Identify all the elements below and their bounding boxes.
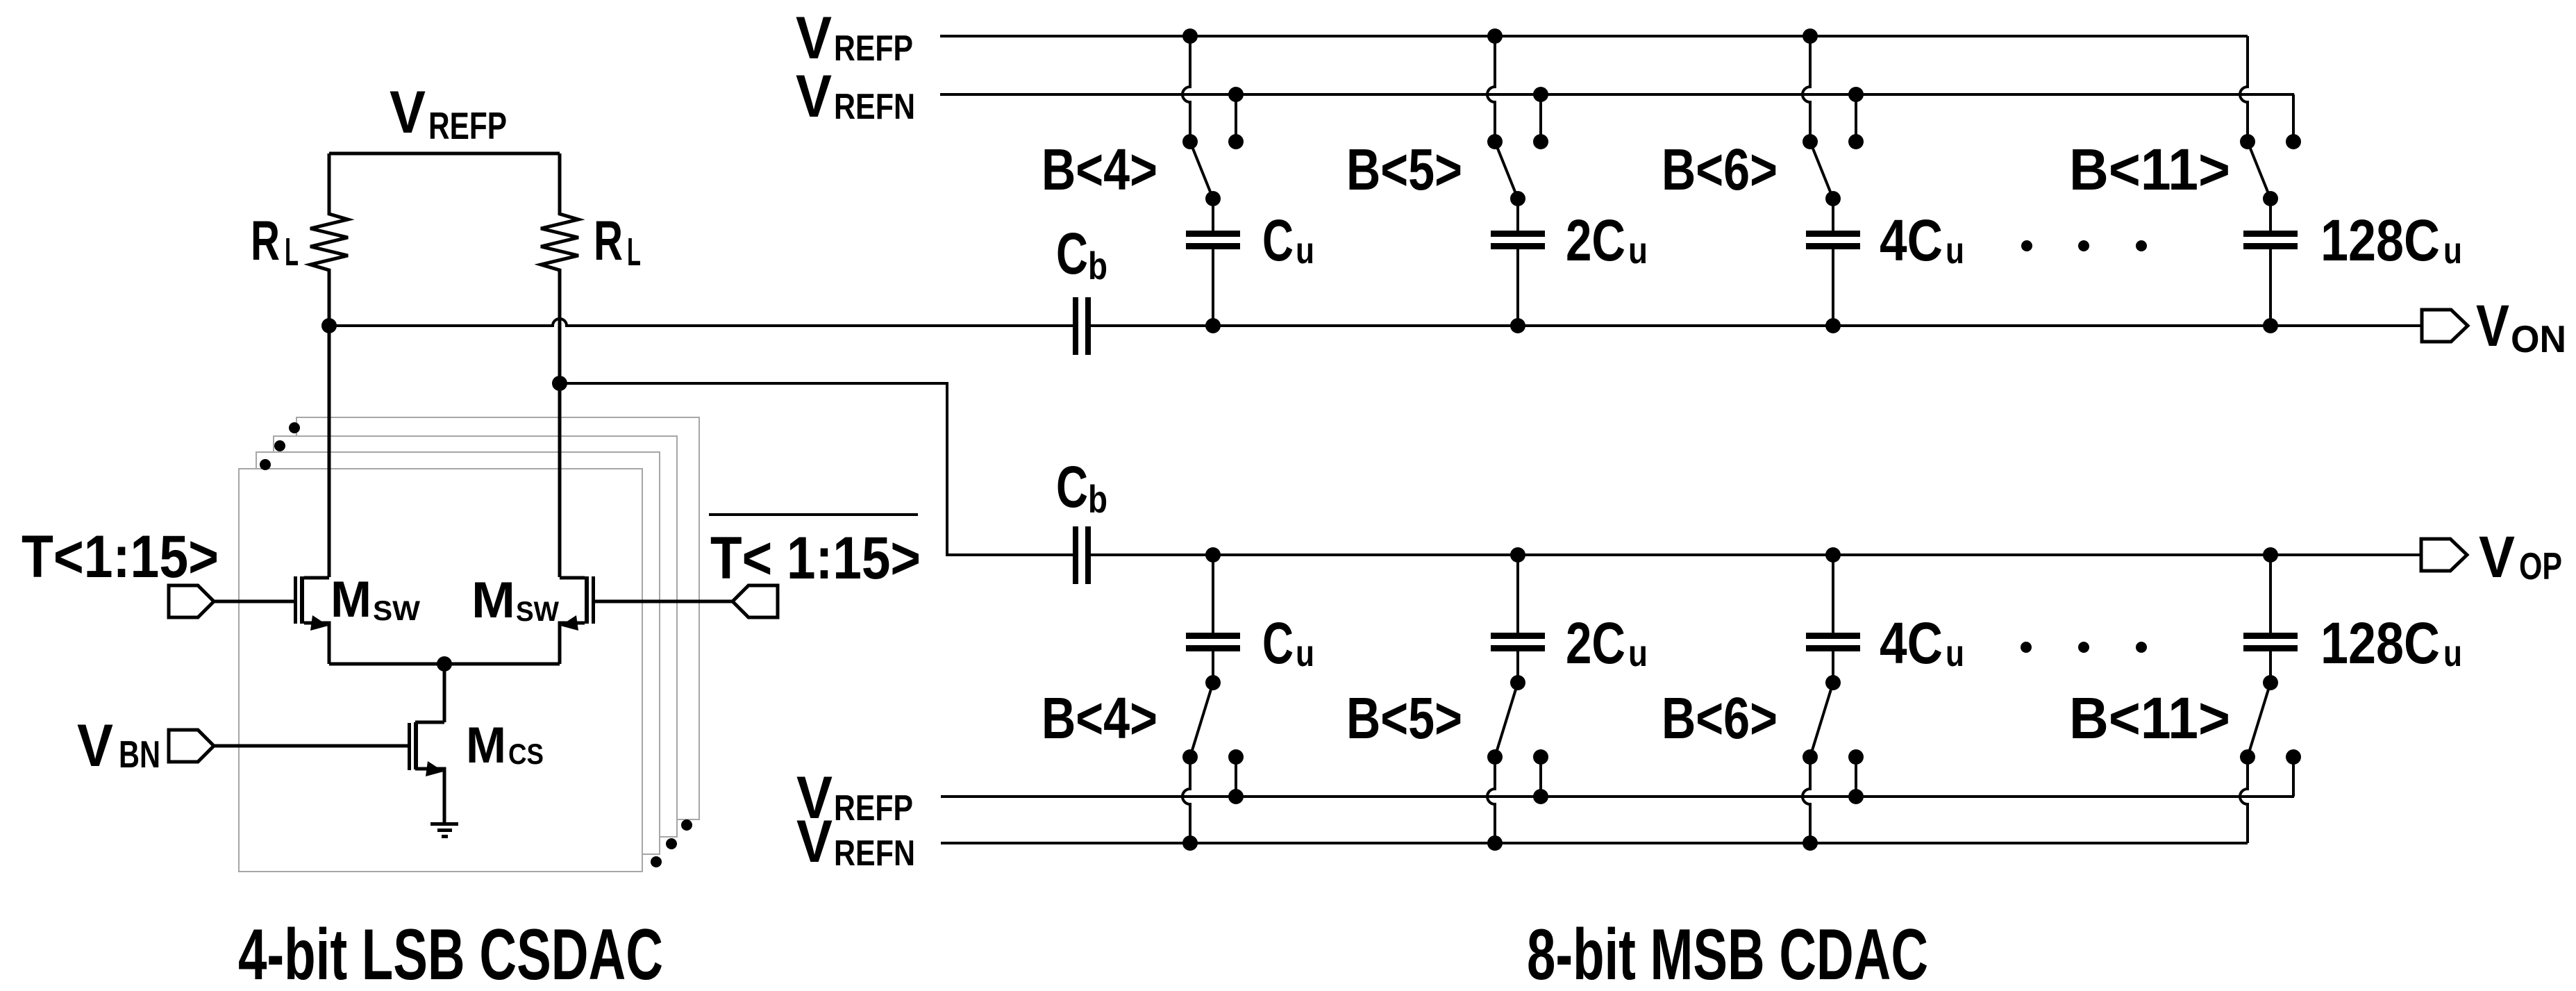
capacitor 128Cu bottom plates (2243, 633, 2298, 639)
wire VOP feed from CSDAC to Cb (560, 383, 1073, 555)
junction VREFP tap B4 top (1182, 28, 1198, 44)
switch B4 top contact VREFN (1228, 134, 1244, 149)
switch B5 top pole (1510, 191, 1525, 206)
svg-text:B<6>: B<6> (1662, 137, 1778, 202)
svg-text:T<1:15>: T<1:15> (22, 524, 219, 590)
switch B5 bottom contact VREFP (1533, 749, 1548, 765)
switch B6 bottom contact VREFN (1803, 749, 1818, 765)
switch B6 bottom pole (1825, 675, 1841, 690)
wire MSW left source (304, 623, 329, 664)
svg-text:b: b (1088, 244, 1107, 288)
svg-text:V: V (2479, 524, 2515, 590)
transistor MCS source arrow (426, 761, 444, 776)
switch B6 top contact VREFP (1803, 134, 1818, 149)
transistor MSW left gate bar (294, 576, 297, 624)
port Tbar<1:15> input (733, 585, 778, 617)
wire VREFN tap for switch B11 bottom (hop over VREFP) (2240, 757, 2248, 843)
wire switch to capacitor 4Cu top (1832, 199, 1834, 231)
transistor MSW right channel bar (585, 576, 589, 624)
svg-text:REFP: REFP (834, 28, 913, 69)
transistor MSW right gate bar (592, 576, 595, 624)
wire VREFP bottom rail (941, 795, 2294, 798)
wire VREFN tap for switch B6 bottom (hop over VREFP) (1803, 757, 1810, 843)
svg-text:B<5>: B<5> (1346, 137, 1462, 202)
switch B4 top arm (1190, 142, 1213, 199)
wire switch to capacitor 128Cu top (2269, 199, 2272, 231)
wire capacitor Cu top to VON rail (1212, 249, 1214, 326)
junction B11 top cap on VON rail (2263, 318, 2278, 333)
wire capacitor 4Cu top to VON rail (1832, 249, 1834, 326)
ground symbol (430, 822, 458, 826)
resistor RL right (541, 153, 578, 577)
switch B5 bottom pole (1510, 675, 1525, 690)
wire switch to capacitor 2Cu top (1516, 199, 1519, 231)
svg-text:B<11>: B<11> (2069, 685, 2230, 751)
capacitor 4Cu top plates (1806, 231, 1860, 237)
svg-text:SW: SW (516, 597, 559, 627)
repeated-cell box 3 (274, 436, 677, 837)
wire VREFP top rail (940, 35, 2248, 38)
wire VREFN stub for switch B5 top (1539, 94, 1542, 142)
svg-text:u: u (1946, 633, 1964, 674)
svg-text:u: u (1628, 230, 1648, 272)
wire VON rail right segment (1091, 324, 2422, 327)
svg-text:V: V (390, 79, 426, 146)
transistor MCS channel bar (414, 722, 418, 769)
switch B6 bottom arm (1810, 683, 1833, 757)
svg-text:B<5>: B<5> (1346, 685, 1462, 751)
wire VOP rail to capacitor 2Cu bottom (1516, 555, 1519, 633)
switch B4 bottom contact VREFN (1182, 749, 1198, 765)
svg-text:4C: 4C (1880, 208, 1943, 273)
svg-text:SW: SW (373, 596, 420, 626)
wire VREFN tap for switch B5 bottom (hop over VREFP) (1487, 757, 1495, 843)
wire switch to capacitor Cu top (1212, 199, 1214, 231)
wire capacitor 128Cu bottom to switch (2269, 651, 2272, 683)
svg-text:u: u (1628, 633, 1648, 674)
capacitor Cu top plates (1186, 231, 1240, 237)
wire VON rail left segment (hop over right RL leg) (329, 319, 1073, 326)
svg-text:B<4>: B<4> (1042, 685, 1157, 751)
switch B5 bottom arm (1495, 683, 1518, 757)
wire VBN to MCS gate (214, 744, 408, 748)
wire VREFP tap for switch B5 top (hop over VREFN) (1487, 36, 1495, 142)
junction B5 bottom cap on VOP rail (1510, 547, 1525, 563)
switch B6 top arm (1810, 142, 1833, 199)
svg-text:4-bit LSB CSDAC: 4-bit LSB CSDAC (238, 915, 663, 991)
svg-text:C: C (1056, 454, 1088, 519)
svg-text:CS: CS (508, 738, 544, 770)
svg-text:REFN: REFN (834, 87, 915, 127)
wire VOP rail to capacitor 128Cu bottom (2269, 555, 2272, 633)
capacitor 128Cu top plates (2243, 231, 2298, 237)
svg-text:V: V (796, 5, 832, 72)
switch B6 bottom contact VREFP (1848, 749, 1864, 765)
switch B4 bottom contact VREFP (1228, 749, 1244, 765)
repeated-cell box 4 (back) (296, 417, 699, 819)
switch B4 top pole (1205, 191, 1221, 206)
stack ellipsis dots bottom-right (651, 856, 662, 867)
svg-text:OP: OP (2519, 544, 2562, 588)
svg-text:u: u (2443, 633, 2462, 674)
junction VREFP stub B5 bottom (1533, 789, 1548, 804)
transistor MSW left source arrow (310, 615, 328, 631)
svg-text:C: C (1262, 610, 1294, 676)
overbar of Tbar<1:15> (709, 513, 918, 516)
svg-text:L: L (627, 230, 641, 274)
svg-text:8-bit MSB CDAC: 8-bit MSB CDAC (1527, 915, 1928, 991)
wire VREFN stub for switch B11 top (2292, 94, 2295, 142)
wire VOP rail to capacitor 4Cu bottom (1832, 555, 1834, 633)
wire VREFP top of CSDAC (329, 152, 560, 156)
switch B11 top contact VREFP (2240, 134, 2255, 149)
wire VREFP stub for switch B6 bottom (1855, 757, 1857, 797)
stack ellipsis dots top-left (289, 422, 300, 433)
junction VREFP tap B5 top (1487, 28, 1503, 44)
svg-text:REFP: REFP (834, 788, 913, 828)
switch B11 top pole (2263, 191, 2278, 206)
svg-text:REFP: REFP (428, 104, 507, 147)
junction B4 top cap on VON rail (1205, 318, 1221, 333)
switch B4 bottom pole (1205, 675, 1221, 690)
svg-text:M: M (331, 572, 371, 628)
svg-text:128C: 128C (2320, 208, 2440, 273)
svg-text:L: L (285, 230, 299, 274)
svg-text:T< 1:15>: T< 1:15> (710, 525, 921, 592)
capacitor Cb bottom (VOP) plates (1073, 526, 1078, 584)
svg-text:C: C (1056, 221, 1088, 286)
transistor MSW left channel bar (300, 576, 304, 624)
junction VOP node at right RL (552, 376, 567, 391)
wire MCS source to ground (415, 769, 444, 824)
wire capacitor Cu bottom to switch (1212, 651, 1214, 683)
switch B11 bottom contact VREFN (2240, 749, 2255, 765)
ellipsis dots bottom row (2021, 642, 2032, 653)
switch B5 top contact VREFP (1487, 134, 1503, 149)
svg-text:R: R (594, 210, 623, 272)
svg-text:B<11>: B<11> (2069, 137, 2230, 202)
wire VREFP stub for switch B4 bottom (1235, 757, 1237, 797)
wire MSW right drain stub (560, 576, 585, 580)
svg-text:M: M (466, 717, 506, 774)
svg-text:ON: ON (2511, 317, 2566, 360)
junction B5 top cap on VON rail (1510, 318, 1525, 333)
wire MCS drain stub (415, 721, 444, 724)
svg-text:u: u (1296, 230, 1314, 272)
wire tail bus (329, 663, 560, 666)
junction VREFN stub B4 top (1228, 87, 1244, 102)
wire VREFN bottom rail (941, 842, 2248, 844)
switch B11 top contact VREFN (2286, 134, 2301, 149)
ellipsis dots top row (2021, 240, 2032, 251)
junction VREFP stub B4 bottom (1228, 789, 1244, 804)
wire Tbar input to MSW right gate (595, 600, 733, 603)
wire VREFN stub for switch B4 top (1235, 94, 1237, 142)
svg-text:B<6>: B<6> (1662, 685, 1778, 751)
repeated-cell box 1 (front) (239, 469, 642, 872)
wire capacitor 4Cu bottom to switch (1832, 651, 1834, 683)
svg-text:V: V (77, 713, 113, 779)
svg-text:128C: 128C (2320, 610, 2440, 676)
capacitor 4Cu bottom plates (1806, 633, 1860, 639)
svg-text:u: u (1296, 633, 1314, 674)
switch B5 top contact VREFN (1533, 134, 1548, 149)
svg-text:BN: BN (119, 733, 160, 776)
wire capacitor 128Cu top to VON rail (2269, 249, 2272, 326)
switch B6 top contact VREFN (1848, 134, 1864, 149)
junction B6 top cap on VON rail (1825, 318, 1841, 333)
wire VREFN stub for switch B6 top (1855, 94, 1857, 142)
svg-text:u: u (1946, 230, 1964, 272)
svg-text:B<4>: B<4> (1042, 137, 1157, 202)
wire capacitor 2Cu top to VON rail (1516, 249, 1519, 326)
wire VREFP stub for switch B11 bottom (2292, 757, 2295, 797)
port VOP output (2421, 539, 2467, 571)
wire VREFP tap for switch B4 top (hop over VREFN) (1182, 36, 1190, 142)
switch B11 bottom arm (2248, 683, 2270, 757)
wire VREFP tap for switch B6 top (hop over VREFN) (1803, 36, 1810, 142)
wire capacitor 2Cu bottom to switch (1516, 651, 1519, 683)
port VBN input (169, 730, 214, 762)
svg-text:b: b (1088, 477, 1107, 521)
svg-text:V: V (796, 63, 832, 130)
junction B11 bottom cap on VOP rail (2263, 547, 2278, 563)
junction B4 bottom cap on VOP rail (1205, 547, 1221, 563)
junction VREFN stub B5 top (1533, 87, 1548, 102)
wire VREFP stub for switch B5 bottom (1539, 757, 1542, 797)
capacitor 2Cu top plates (1491, 231, 1545, 237)
junction B6 bottom cap on VOP rail (1825, 547, 1841, 563)
port VON output (2422, 310, 2468, 342)
wire VREFN tap for switch B4 bottom (hop over VREFP) (1182, 757, 1190, 843)
wire MSW left drain stub (304, 576, 329, 580)
junction VREFN tap B4 bottom (1182, 835, 1198, 851)
svg-text:C: C (1262, 208, 1294, 273)
wire tail node to MCS drain (443, 664, 446, 722)
junction VREFN tap B6 bottom (1803, 835, 1818, 851)
switch B4 top contact VREFP (1182, 134, 1198, 149)
junction VON node at left RL (321, 318, 337, 333)
transistor MCS gate bar (408, 723, 411, 770)
junction VREFN stub B6 top (1848, 87, 1864, 102)
switch B11 top arm (2248, 142, 2270, 199)
capacitor 2Cu bottom plates (1491, 633, 1545, 639)
svg-text:V: V (2476, 293, 2509, 358)
junction VREFP tap B6 top (1803, 28, 1818, 44)
switch B4 bottom arm (1190, 683, 1213, 757)
junction VREFP stub B6 bottom (1848, 789, 1864, 804)
junction VREFN tap B5 bottom (1487, 835, 1503, 851)
transistor MSW right source arrow (560, 615, 578, 631)
svg-text:2C: 2C (1566, 610, 1625, 676)
port T<1:15> input (169, 585, 214, 617)
switch B11 bottom contact VREFP (2286, 749, 2301, 765)
svg-text:M: M (471, 572, 515, 628)
resistor RL left (310, 153, 348, 577)
svg-text:u: u (2443, 230, 2462, 272)
junction common-source tail node (437, 656, 452, 672)
switch B11 bottom pole (2263, 675, 2278, 690)
wire VOP rail right segment (1091, 553, 2421, 556)
wire VOP rail to capacitor Cu bottom (1212, 555, 1214, 633)
capacitor Cb top (VON) plates (1073, 297, 1078, 355)
capacitor Cu bottom plates (1186, 633, 1240, 639)
svg-text:V: V (796, 808, 833, 875)
repeated-cell box 2 (256, 452, 660, 854)
wire T input to MSW left gate (214, 600, 294, 603)
svg-text:4C: 4C (1880, 610, 1943, 676)
switch B6 top pole (1825, 191, 1841, 206)
switch B5 bottom contact VREFN (1487, 749, 1503, 765)
svg-text:REFN: REFN (834, 833, 915, 874)
wire VREFN top rail (940, 93, 2294, 96)
switch B5 top arm (1495, 142, 1518, 199)
svg-text:R: R (251, 210, 280, 272)
svg-text:2C: 2C (1566, 208, 1625, 273)
wire MSW right source (560, 623, 585, 664)
wire VREFP tap for switch B11 top (hop over VREFN) (2240, 36, 2248, 142)
